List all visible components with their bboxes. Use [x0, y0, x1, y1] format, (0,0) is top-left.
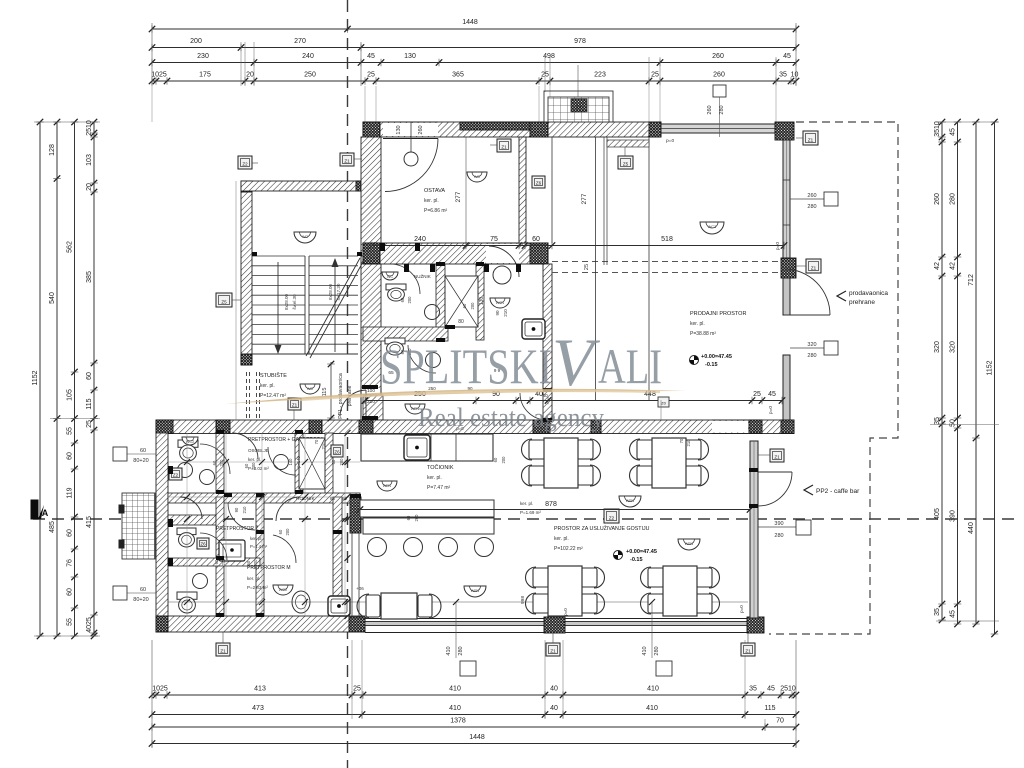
svg-text:413: 413	[254, 686, 266, 693]
svg-text:+0.00=47.45: +0.00=47.45	[626, 549, 657, 555]
svg-text:PRODAJNI PROSTOR: PRODAJNI PROSTOR	[690, 311, 746, 317]
svg-text:4025: 4025	[86, 617, 93, 633]
svg-text:1448: 1448	[469, 734, 485, 741]
svg-text:ker. pl.: ker. pl.	[554, 536, 569, 542]
svg-text:260: 260	[713, 72, 725, 79]
svg-text:105: 105	[67, 389, 74, 401]
svg-text:10: 10	[791, 72, 799, 79]
svg-text:473: 473	[252, 705, 264, 712]
svg-text:978: 978	[574, 38, 586, 45]
svg-text:Z6: Z6	[536, 181, 542, 186]
svg-text:Z2: Z2	[242, 162, 248, 167]
svg-text:WC: WC	[302, 235, 309, 239]
svg-text:119: 119	[67, 487, 74, 498]
svg-text:405: 405	[934, 508, 941, 520]
svg-text:ker. pl.: ker. pl.	[248, 457, 261, 462]
svg-text:35: 35	[934, 417, 941, 425]
svg-text:Z1: Z1	[811, 266, 817, 271]
svg-text:60: 60	[400, 297, 405, 302]
svg-text:20: 20	[246, 72, 254, 79]
svg-text:200: 200	[219, 459, 224, 467]
svg-text:70: 70	[314, 439, 319, 444]
svg-text:OSTAVA: OSTAVA	[424, 188, 445, 194]
svg-text:Z6: Z6	[334, 450, 340, 455]
svg-text:115: 115	[322, 388, 328, 397]
svg-text:P=2.83 m²: P=2.83 m²	[247, 585, 268, 590]
svg-text:70: 70	[776, 718, 784, 725]
svg-text:OSOBLJE: OSOBLJE	[248, 448, 269, 453]
svg-text:ker. pl.: ker. pl.	[250, 536, 262, 541]
svg-text:60: 60	[140, 587, 146, 593]
svg-text:518: 518	[661, 236, 673, 243]
svg-text:25: 25	[753, 391, 761, 398]
svg-text:1448: 1448	[462, 19, 478, 26]
svg-text:p=0: p=0	[739, 605, 744, 613]
svg-text:Z1: Z1	[808, 138, 814, 143]
svg-text:WC: WC	[474, 175, 481, 179]
svg-text:80+20: 80+20	[133, 597, 148, 603]
svg-text:ker. pl.: ker. pl.	[247, 576, 260, 581]
svg-text:60: 60	[67, 529, 74, 537]
svg-text:35: 35	[934, 608, 941, 616]
svg-text:230: 230	[197, 53, 209, 60]
svg-text:WR1: WR1	[626, 499, 634, 503]
svg-text:P=6.86 m²: P=6.86 m²	[424, 208, 448, 214]
svg-text:385: 385	[86, 271, 93, 283]
svg-text:410: 410	[642, 646, 648, 655]
svg-text:25: 25	[584, 264, 590, 270]
svg-text:Z4: Z4	[577, 105, 583, 110]
svg-text:410: 410	[446, 646, 452, 655]
svg-text:390: 390	[950, 510, 957, 522]
svg-text:ALI: ALI	[598, 338, 662, 394]
svg-text:270: 270	[294, 38, 306, 45]
svg-text:20: 20	[86, 183, 93, 191]
svg-text:60: 60	[67, 588, 74, 596]
svg-text:Z2: Z2	[609, 516, 615, 521]
svg-text:25: 25	[651, 72, 659, 79]
svg-text:prehrane: prehrane	[849, 299, 875, 306]
svg-text:1025: 1025	[151, 72, 167, 79]
svg-text:25: 25	[353, 686, 361, 693]
svg-text:712: 712	[968, 274, 975, 286]
svg-text:SPLITSKI: SPLITSKI	[380, 338, 552, 394]
svg-text:250: 250	[304, 72, 316, 79]
svg-text:45: 45	[367, 53, 375, 60]
svg-text:p=0: p=0	[775, 242, 781, 250]
svg-text:WR1: WR1	[383, 484, 391, 488]
svg-text:280: 280	[719, 105, 725, 114]
svg-text:60: 60	[406, 515, 411, 520]
svg-text:WC: WC	[387, 275, 394, 279]
svg-text:-0.15: -0.15	[630, 557, 643, 563]
svg-text:-0.15: -0.15	[705, 362, 718, 368]
svg-text:410: 410	[449, 705, 461, 712]
svg-text:60: 60	[278, 529, 283, 534]
svg-text:485: 485	[49, 521, 56, 533]
svg-text:Z1: Z1	[550, 649, 556, 654]
svg-text:200: 200	[253, 559, 258, 567]
svg-text:260: 260	[712, 53, 724, 60]
svg-text:320: 320	[950, 341, 957, 353]
svg-text:223: 223	[594, 72, 606, 79]
svg-text:76: 76	[67, 559, 74, 567]
svg-text:p=0: p=0	[768, 406, 774, 414]
svg-text:40: 40	[550, 705, 558, 712]
svg-text:WC3: WC3	[708, 225, 716, 229]
svg-text:210: 210	[367, 399, 375, 405]
svg-text:Z2: Z2	[173, 473, 179, 478]
svg-text:440: 440	[968, 522, 975, 534]
svg-text:1025: 1025	[152, 686, 168, 693]
svg-text:šv.el.30: šv.el.30	[292, 294, 297, 310]
svg-text:50: 50	[950, 419, 957, 427]
svg-text:8x28.00: 8x28.00	[328, 283, 333, 300]
svg-text:115: 115	[86, 398, 93, 409]
svg-text:35: 35	[749, 686, 757, 693]
svg-text:STUBIŠTE: STUBIŠTE	[260, 372, 287, 379]
svg-text:P=38.88 m²: P=38.88 m²	[690, 331, 716, 337]
svg-text:p=140: p=140	[296, 455, 301, 467]
svg-text:60: 60	[493, 457, 498, 462]
svg-text:60: 60	[331, 459, 336, 464]
svg-text:25: 25	[86, 420, 93, 428]
svg-text:280: 280	[458, 646, 464, 655]
svg-text:200: 200	[190, 38, 202, 45]
svg-text:45: 45	[950, 128, 957, 136]
svg-text:280: 280	[950, 193, 957, 205]
svg-text:175: 175	[199, 72, 211, 79]
svg-text:Z0: Z0	[661, 401, 666, 406]
svg-text:45: 45	[950, 610, 957, 618]
svg-text:Real estate agency: Real estate agency	[418, 403, 604, 432]
svg-text:P=12.47 m²: P=12.47 m²	[260, 393, 286, 399]
svg-text:260: 260	[418, 125, 424, 134]
svg-text:60: 60	[532, 236, 540, 243]
svg-text:103: 103	[86, 154, 93, 166]
svg-text:410: 410	[647, 686, 659, 693]
svg-text:128: 128	[49, 144, 56, 156]
svg-text:410: 410	[646, 705, 658, 712]
svg-text:277: 277	[581, 193, 588, 204]
svg-text:130: 130	[404, 53, 416, 60]
svg-text:60: 60	[140, 448, 146, 454]
svg-text:ker. pl.: ker. pl.	[260, 383, 275, 389]
svg-text:60: 60	[244, 463, 249, 468]
svg-text:Z1: Z1	[344, 159, 350, 164]
svg-text:P=102.22 m²: P=102.22 m²	[554, 546, 583, 552]
svg-text:260: 260	[707, 105, 713, 114]
svg-text:60: 60	[462, 303, 467, 308]
svg-text:A: A	[42, 508, 49, 518]
svg-text:2510: 2510	[86, 120, 93, 136]
svg-text:P=1.69 m²: P=1.69 m²	[520, 510, 541, 515]
svg-text:Z1: Z1	[220, 649, 226, 654]
svg-text:562: 562	[67, 241, 74, 253]
svg-text:85: 85	[330, 496, 336, 501]
svg-text:55: 55	[67, 618, 74, 626]
svg-text:240: 240	[302, 53, 314, 60]
svg-text:878: 878	[545, 501, 557, 508]
svg-text:60: 60	[86, 372, 93, 380]
svg-text:Z1: Z1	[745, 649, 751, 654]
svg-text:90: 90	[495, 310, 500, 316]
svg-text:3510: 3510	[934, 121, 941, 137]
svg-text:1152: 1152	[32, 370, 39, 385]
svg-text:55: 55	[67, 427, 74, 435]
svg-text:1152: 1152	[987, 360, 994, 375]
svg-text:Z1: Z1	[774, 455, 780, 460]
svg-text:prodavaonica: prodavaonica	[849, 290, 888, 297]
svg-text:1378: 1378	[450, 718, 466, 725]
svg-text:260: 260	[807, 193, 816, 199]
svg-text:390: 390	[774, 521, 783, 527]
svg-text:200: 200	[251, 462, 256, 470]
svg-text:ker. pl.: ker. pl.	[520, 501, 533, 506]
svg-text:210: 210	[242, 506, 247, 514]
svg-text:365: 365	[452, 72, 464, 79]
svg-text:PRETPROSTOR Ž: PRETPROSTOR Ž	[216, 524, 258, 532]
svg-text:42: 42	[950, 262, 957, 270]
svg-text:PROSTOR ZA USLUŽIVANJE GOSTIJU: PROSTOR ZA USLUŽIVANJE GOSTIJU	[554, 524, 650, 532]
svg-text:210: 210	[503, 309, 508, 317]
svg-text:ker. pl.: ker. pl.	[424, 198, 439, 204]
svg-text:280: 280	[654, 646, 660, 655]
svg-text:280: 280	[774, 533, 783, 539]
svg-text:25: 25	[367, 72, 375, 79]
svg-text:130: 130	[396, 125, 402, 134]
svg-text:210: 210	[321, 442, 326, 450]
svg-text:+06: +06	[356, 586, 364, 591]
svg-text:200: 200	[470, 302, 475, 310]
svg-text:410: 410	[449, 686, 461, 693]
svg-text:WC2: WC2	[279, 588, 287, 592]
svg-text:80: 80	[458, 319, 464, 325]
svg-text:TOČIONIK: TOČIONIK	[427, 464, 454, 471]
svg-text:45: 45	[783, 53, 791, 60]
svg-text:320: 320	[807, 342, 816, 348]
svg-text:540: 540	[49, 292, 56, 304]
svg-text:45: 45	[767, 686, 775, 693]
svg-text:P=1.4 m²: P=1.4 m²	[250, 544, 268, 549]
svg-text:60: 60	[212, 460, 217, 465]
svg-text:280: 280	[807, 353, 816, 359]
svg-text:+0.00=47.45: +0.00=47.45	[701, 354, 732, 360]
svg-text:240: 240	[414, 236, 426, 243]
svg-text:42: 42	[934, 262, 941, 270]
svg-text:200: 200	[501, 456, 506, 464]
svg-text:277: 277	[455, 191, 462, 202]
svg-text:200: 200	[414, 514, 419, 522]
svg-text:200: 200	[339, 458, 344, 466]
svg-text:210: 210	[686, 439, 691, 447]
svg-text:ker. pl.: ker. pl.	[690, 321, 705, 327]
svg-text:Z1: Z1	[292, 403, 298, 408]
svg-text:115: 115	[764, 705, 775, 712]
svg-text:WC: WC	[307, 387, 314, 391]
svg-text:45: 45	[768, 391, 776, 398]
svg-text:Z6: Z6	[200, 542, 206, 547]
svg-text:140: 140	[288, 458, 293, 466]
svg-text:WR1: WR1	[685, 542, 693, 546]
svg-text:šv.17.30: šv.17.30	[336, 283, 341, 300]
svg-text:NUŽNIK: NUŽNIK	[414, 272, 431, 279]
svg-text:Z1: Z1	[501, 145, 507, 150]
svg-text:WC1: WC1	[496, 301, 504, 305]
svg-text:200: 200	[407, 296, 412, 304]
svg-text:130: 130	[479, 297, 485, 306]
svg-text:90: 90	[234, 507, 239, 512]
svg-text:2510: 2510	[780, 686, 796, 693]
svg-text:320: 320	[934, 341, 941, 353]
svg-text:35: 35	[779, 72, 787, 79]
svg-text:p=0: p=0	[666, 138, 674, 144]
svg-text:200: 200	[285, 528, 290, 536]
svg-text:8x28.00: 8x28.00	[284, 293, 289, 310]
svg-text:280: 280	[807, 204, 816, 210]
svg-text:40: 40	[550, 686, 558, 693]
svg-text:Z5: Z5	[623, 162, 629, 167]
svg-text:60: 60	[67, 452, 74, 460]
svg-text:p=0: p=0	[563, 608, 568, 616]
svg-text:415: 415	[86, 516, 93, 528]
svg-text:80+20: 80+20	[133, 458, 148, 464]
svg-text:60: 60	[246, 560, 251, 565]
svg-text:260: 260	[934, 193, 941, 205]
svg-text:P=7.47 m²: P=7.47 m²	[427, 485, 451, 491]
svg-text:75: 75	[490, 236, 498, 243]
svg-text:70: 70	[679, 438, 684, 443]
svg-text:WR1: WR1	[471, 589, 479, 593]
svg-text:Z5: Z5	[221, 300, 227, 305]
svg-text:ker. pl.: ker. pl.	[427, 475, 442, 481]
svg-text:PP2 - caffe bar: PP2 - caffe bar	[816, 488, 860, 495]
